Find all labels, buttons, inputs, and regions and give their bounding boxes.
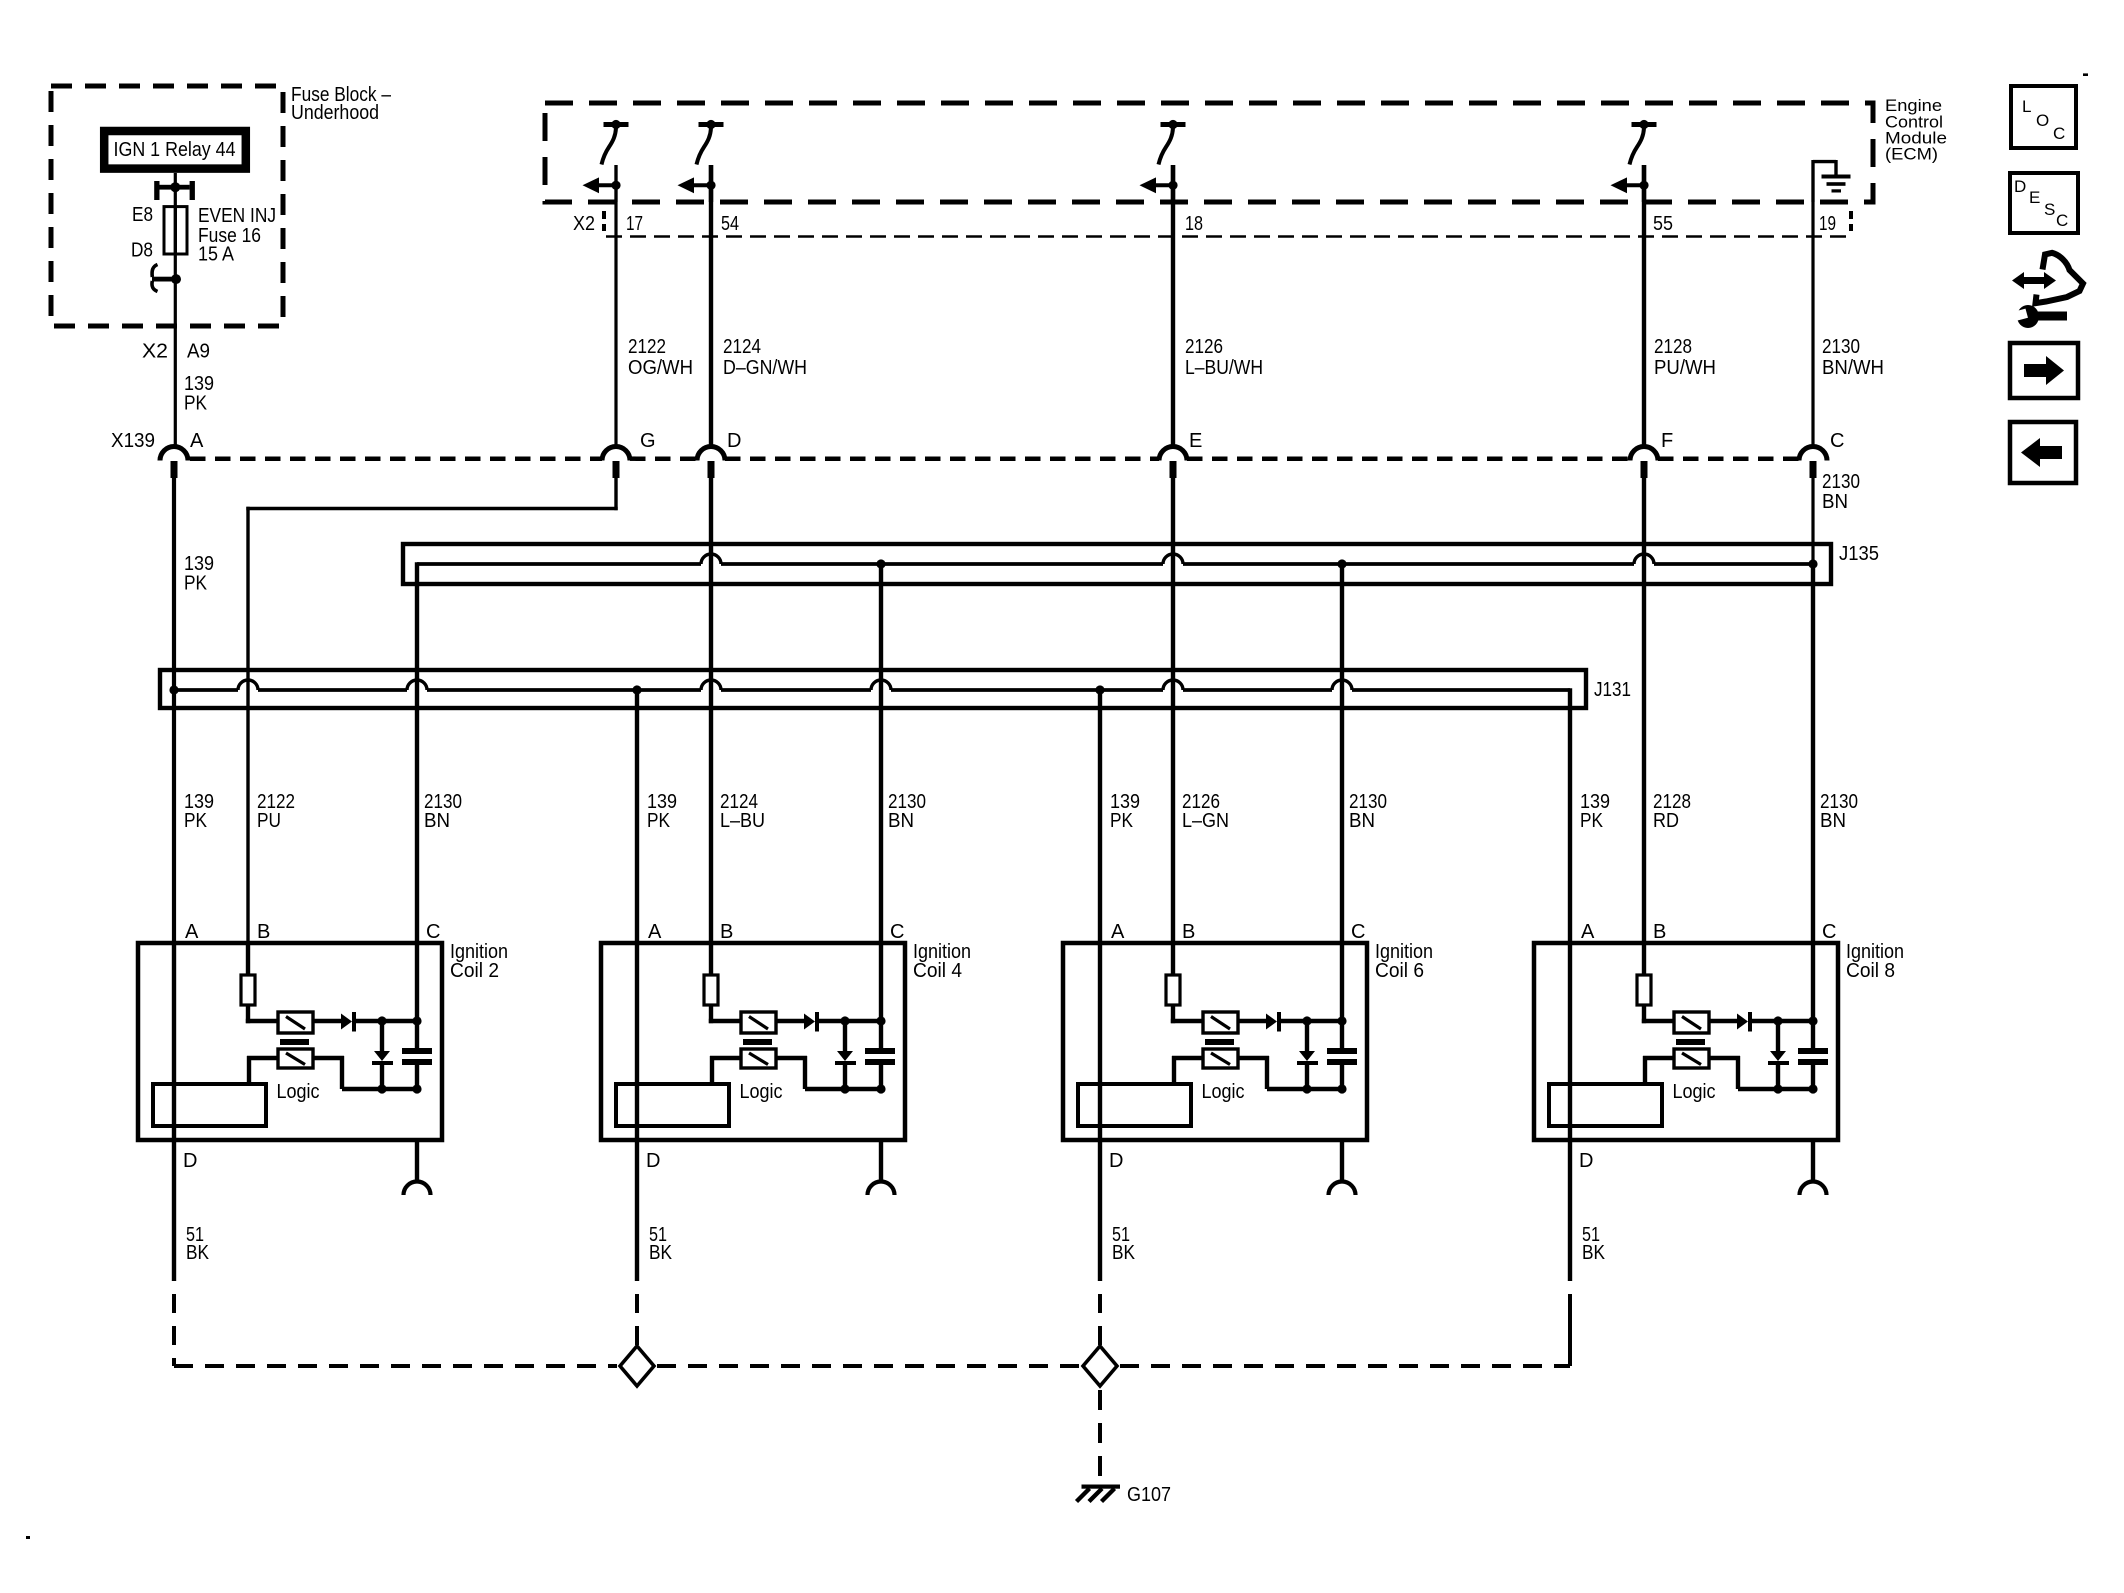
label wire 2122 OG/WH [628, 336, 693, 379]
ground bus dashed wire left segment [174, 1364, 617, 1368]
icon forward arrow box [2010, 343, 2078, 398]
connector X139 terminal A [160, 447, 188, 478]
coil 2 capacitor [402, 1048, 432, 1065]
svg-text:A: A [648, 921, 662, 943]
svg-text:A: A [190, 430, 204, 452]
pin label B coil 6 [1182, 921, 1195, 943]
fuse block - underhood dashed box [51, 86, 283, 326]
coil 2 primary winding [278, 1012, 313, 1033]
svg-text:X139: X139 [111, 430, 155, 452]
coil 4 diode [804, 1012, 819, 1032]
coil 6 wire to zener [1305, 1021, 1309, 1051]
svg-text:C: C [890, 921, 904, 943]
ignition coil 2 box [138, 943, 442, 1140]
icon LOC box [2011, 86, 2076, 148]
relay IGN 1 Relay 44 [104, 131, 246, 169]
coil 6 junction dot zener bottom [1302, 1084, 1311, 1093]
label Fuse Block - Underhood [291, 84, 392, 124]
pin label C coil 8 [1822, 921, 1836, 943]
fuse F16 EVEN INJ 15A [164, 207, 187, 254]
svg-text:B: B [257, 921, 270, 943]
svg-text:S: S [2044, 200, 2055, 219]
junction dot J135 at 2130 BN feed [1808, 559, 1817, 568]
svg-text:L–BU/WH: L–BU/WH [1185, 357, 1263, 379]
svg-text:2126: 2126 [1185, 336, 1223, 358]
svg-text:E: E [2029, 188, 2040, 207]
ground bus dashed wire right segment [1120, 1294, 1570, 1366]
wire 2130 BN J135 to coil6 C [1340, 564, 1344, 943]
label Ignition Coil 8 [1846, 941, 1904, 982]
label wire 51 BK coil 8 [1582, 1224, 1606, 1264]
ground bus dashed wire middle segment [657, 1364, 1079, 1368]
svg-text:E8: E8 [132, 204, 153, 226]
coil 8 junction dot C bottom [1808, 1084, 1817, 1093]
svg-text:PK: PK [1580, 810, 1604, 832]
coil 8 diode [1737, 1012, 1752, 1032]
coil 8 secondary left wire to logic block [1643, 1056, 1674, 1084]
wire 51 BK coil 8 dashed [1568, 1294, 1572, 1366]
coil 4 bottom tie wire [805, 1087, 881, 1091]
label Ignition Coil 4 [913, 941, 971, 982]
wire 51 BK coil 4 solid [635, 1140, 639, 1281]
coil 2 wire resistor to primary [246, 1005, 278, 1023]
terminal label D [727, 430, 741, 452]
svg-text:E: E [1189, 430, 1202, 452]
svg-text:D: D [727, 430, 741, 452]
svg-text:IGN 1 Relay 44: IGN 1 Relay 44 [114, 139, 236, 161]
svg-text:C: C [1351, 921, 1365, 943]
coil 2 wire to zener [380, 1021, 384, 1051]
label J131 [1594, 679, 1631, 701]
wire 2130 BN J135 to coil2 C [415, 562, 419, 943]
ground symbol G107 [1077, 1485, 1121, 1502]
pin label 18 [1185, 213, 1203, 235]
coil 4 junction dot at zener top [840, 1016, 849, 1025]
pin label B coil 2 [257, 921, 270, 943]
pin label C coil 4 [890, 921, 904, 943]
wire 2126 E to coil6 B [1171, 461, 1175, 943]
coil 2 wire primary to diode [313, 1019, 341, 1023]
pin label C coil 2 [426, 921, 440, 943]
connector X139 terminal G [602, 447, 630, 478]
coil 2 junction dot zener bottom [377, 1084, 386, 1093]
wire 2130 BN J135 to coil4 C [879, 564, 883, 943]
svg-text:Coil 2: Coil 2 [450, 960, 499, 982]
svg-text:Logic: Logic [1673, 1081, 1716, 1103]
svg-text:G107: G107 [1127, 1484, 1171, 1506]
svg-text:BN: BN [1822, 491, 1848, 513]
coil 6 wire A through logic block to D [1098, 943, 1102, 1140]
coil 6 junction dot at zener top [1302, 1016, 1311, 1025]
coil 8 logic block [1549, 1084, 1662, 1126]
svg-text:Logic: Logic [1202, 1081, 1245, 1103]
svg-text:BN: BN [424, 810, 450, 832]
coil 8 bottom tie wire [1738, 1087, 1813, 1091]
junction dot J131 coil6 tap [1095, 685, 1104, 694]
wire 2124 D to coil4 B [709, 461, 713, 943]
svg-text:D: D [1579, 1150, 1593, 1172]
wire 2122 jog from G down-left to coil2 B [246, 461, 617, 943]
splice J131 bus conductor [174, 680, 1570, 690]
coil 6 secondary left wire to logic block [1172, 1056, 1203, 1084]
svg-text:PU: PU [257, 810, 281, 832]
svg-text:L–BU: L–BU [720, 810, 765, 832]
wire 51 BK coil 4 dashed [635, 1294, 639, 1366]
wire 2126 L-BU/WH pin18 to X139-E [1171, 165, 1175, 447]
coil 8 wire C pin to capacitor [1811, 943, 1815, 1048]
ECM driver transistor for pin 55 [1611, 120, 1657, 202]
ignition coil 8 box [1534, 943, 1838, 1140]
svg-text:BK: BK [1582, 1242, 1606, 1264]
coil 6 wire zener to bottom [1305, 1065, 1309, 1089]
icon harness repair double arrow [2012, 272, 2056, 289]
ECM connector separator left [602, 211, 606, 231]
coil 2 junction dot C bottom [412, 1084, 421, 1093]
coil 4 wire diode to C [819, 1019, 881, 1023]
coil 4 secondary terminal arc [868, 1182, 895, 1196]
wire 2130 BN/WH pin19 to X139-C [1811, 160, 1814, 447]
icon harness outline squiggle [2036, 253, 2084, 303]
coil 6 wire C to terminal arc [1340, 1140, 1344, 1182]
svg-text:Underhood: Underhood [291, 102, 379, 124]
coil 4 wire zener to bottom [843, 1065, 847, 1089]
coil 4 resistor [704, 975, 718, 1005]
coil 2 secondary left wire to logic block [247, 1056, 278, 1084]
svg-text:BK: BK [186, 1242, 210, 1264]
coil 2 junction dot at C top [412, 1016, 421, 1025]
coil 8 resistor [1637, 975, 1651, 1005]
wire 51 BK coil 8 solid [1568, 1140, 1572, 1281]
coil 6 secondary right wire down [1238, 1056, 1269, 1089]
coil 4 wire A through logic block to D [635, 943, 639, 1140]
coil 8 secondary winding [1674, 1049, 1709, 1068]
coil 4 secondary right wire down [776, 1056, 807, 1089]
svg-text:2128: 2128 [1654, 336, 1692, 358]
wire 51 BK coil 6 dashed [1098, 1294, 1102, 1366]
coil 2 secondary terminal arc [404, 1182, 431, 1196]
label Ignition Coil 2 [450, 941, 508, 982]
coil 2 logic block [153, 1084, 266, 1126]
label J135 [1839, 543, 1879, 565]
pin label B coil 8 [1653, 921, 1666, 943]
coil 6 capacitor [1327, 1048, 1357, 1065]
wire splice to ground G107 dashed [1098, 1390, 1102, 1483]
coil 6 wire diode to C [1281, 1019, 1342, 1023]
label wire 139 PK coil 8 [1580, 791, 1610, 832]
coil 4 wire capacitor to bottom [879, 1065, 883, 1091]
coil 8 primary feed wire from B [1642, 943, 1646, 975]
svg-text:BN/WH: BN/WH [1822, 357, 1884, 379]
coil 6 logic block [1078, 1084, 1191, 1126]
ECM dashed box [545, 103, 1873, 202]
icon wrench [2007, 305, 2067, 328]
coil 2 wire C to terminal arc [415, 1140, 419, 1182]
label Logic coil 4 [740, 1081, 783, 1103]
coil 2 primary feed wire from B [246, 943, 250, 975]
ignition coil 4 box [601, 943, 905, 1140]
splice pack J135 box [403, 544, 1831, 584]
coil 8 secondary right wire down [1709, 1056, 1740, 1089]
svg-text:J131: J131 [1594, 679, 1631, 701]
coil 2 secondary right wire down [313, 1056, 344, 1089]
svg-text:X2: X2 [573, 213, 595, 235]
wire 51 BK coil 2 dashed [172, 1294, 176, 1366]
svg-text:RD: RD [1653, 810, 1679, 832]
coil 8 junction dot at zener top [1773, 1016, 1782, 1025]
svg-text:PU/WH: PU/WH [1654, 357, 1716, 379]
svg-text:Coil 6: Coil 6 [1375, 960, 1424, 982]
coil 6 secondary terminal arc [1329, 1182, 1356, 1196]
svg-text:EVEN INJ: EVEN INJ [198, 205, 276, 227]
label wire 2130 BN/WH [1822, 336, 1884, 379]
junction dot J135 coil4 tap [876, 559, 885, 568]
svg-text:BK: BK [649, 1242, 673, 1264]
coil 6 wire primary to diode [1238, 1019, 1266, 1023]
svg-text:BN: BN [1820, 810, 1846, 832]
terminal label G [640, 430, 656, 452]
label Engine Control Module (ECM) [1885, 96, 1947, 164]
label wire 139 PK middle [184, 553, 214, 595]
pin label A coil 4 [648, 921, 662, 943]
coil 8 junction dot at C top [1808, 1016, 1817, 1025]
coil 8 wire primary to diode [1709, 1019, 1737, 1023]
splice pack J131 box [160, 670, 1586, 708]
label wire 2128 RD coil 8 [1653, 791, 1691, 832]
svg-text:(ECM): (ECM) [1885, 145, 1938, 164]
icon back arrow box [2010, 422, 2076, 483]
coil 2 wire A through logic block to D [172, 943, 176, 1140]
label X2 at ECM connector [573, 213, 595, 235]
pin label D coil 4 [646, 1150, 660, 1172]
wire 139 PK X139-A to J131 to coil2 A [172, 461, 176, 943]
svg-text:L: L [2022, 97, 2031, 116]
label G107 [1127, 1484, 1171, 1506]
label wire 51 BK coil 6 [1112, 1224, 1136, 1264]
label wire 139 PK coil 2 [184, 791, 214, 832]
junction dot J131 at 139 PK feed [169, 685, 178, 694]
svg-text:A9: A9 [187, 341, 210, 363]
label wire 2128 PU/WH [1654, 336, 1716, 379]
coil 2 bottom tie wire [342, 1087, 417, 1091]
connector X139 dotted line [190, 456, 1799, 461]
junction dot J131 coil4 tap [632, 685, 641, 694]
svg-text:2130: 2130 [1822, 336, 1860, 358]
svg-text:A: A [1111, 921, 1125, 943]
stray mark top right [2083, 73, 2088, 76]
coil 4 junction dot C bottom [876, 1084, 885, 1093]
svg-text:C: C [1830, 430, 1844, 452]
svg-text:B: B [1653, 921, 1666, 943]
label connector X2 pin A9 [142, 341, 210, 363]
coil 6 junction dot at C top [1337, 1016, 1346, 1025]
coil 6 bottom tie wire [1267, 1087, 1342, 1091]
fuse holder top clip [154, 181, 195, 200]
label E8 [132, 204, 153, 226]
svg-text:Logic: Logic [277, 1081, 320, 1103]
coil 8 wire capacitor to bottom [1811, 1065, 1815, 1091]
coil 6 resistor [1166, 975, 1180, 1005]
coil 6 primary feed wire from B [1171, 943, 1175, 975]
coil 4 primary winding [741, 1012, 776, 1033]
label Logic coil 8 [1673, 1081, 1716, 1103]
icon DESC box [2010, 173, 2078, 233]
svg-text:L–GN: L–GN [1182, 810, 1229, 832]
coil 4 wire C pin to capacitor [879, 943, 883, 1048]
wire 2124 D-GN/WH pin54 to X139-D [709, 165, 713, 447]
coil 8 junction dot zener bottom [1773, 1084, 1782, 1093]
svg-text:A: A [185, 921, 199, 943]
svg-text:2122: 2122 [628, 336, 666, 358]
wire 139 PK J131 to coil6 A [1098, 690, 1102, 943]
pin label 55 [1653, 213, 1673, 235]
ECM connector separator right [1849, 211, 1853, 231]
label wire 2126 L–GN coil 6 [1182, 791, 1229, 832]
svg-text:15 A: 15 A [198, 244, 235, 266]
pin label D coil 2 [183, 1150, 197, 1172]
coil 4 zener diode [835, 1051, 856, 1065]
label Logic coil 6 [1202, 1081, 1245, 1103]
svg-text:18: 18 [1185, 213, 1203, 235]
svg-text:D: D [646, 1150, 660, 1172]
coil 4 capacitor [865, 1048, 895, 1065]
pin label A coil 8 [1581, 921, 1595, 943]
wire 2128 PU/WH pin55 to X139-F [1642, 165, 1646, 447]
coil 6 junction dot C bottom [1337, 1084, 1346, 1093]
connector X139 terminal F [1630, 447, 1658, 478]
svg-text:Coil 4: Coil 4 [913, 960, 962, 982]
coil 6 secondary winding [1203, 1049, 1238, 1068]
coil 2 wire diode to C [356, 1019, 417, 1023]
coil 4 wire C to terminal arc [879, 1140, 883, 1182]
svg-text:D–GN/WH: D–GN/WH [723, 357, 807, 379]
coil 6 diode [1266, 1012, 1281, 1032]
ECM driver transistor for pin 54 [678, 120, 724, 202]
coil 2 diode [341, 1012, 356, 1032]
coil 4 secondary left wire to logic block [710, 1056, 741, 1084]
svg-text:F: F [1661, 430, 1673, 452]
coil 2 zener diode [372, 1051, 393, 1065]
coil 8 primary winding [1674, 1012, 1709, 1033]
terminal label C [1830, 430, 1844, 452]
label wire 51 BK coil 2 [186, 1224, 210, 1264]
coil 6 wire C pin to capacitor [1340, 943, 1344, 1048]
label wire 139 PK upper [184, 373, 214, 415]
label EVEN INJ Fuse 16 15 A [198, 205, 276, 266]
label Logic coil 2 [277, 1081, 320, 1103]
svg-text:C: C [1822, 921, 1836, 943]
label wire 139 PK coil 6 [1110, 791, 1140, 832]
junction dot J135 coil6 tap [1337, 559, 1346, 568]
pin label D coil 8 [1579, 1150, 1593, 1172]
svg-text:G: G [640, 430, 656, 452]
wire 139 PK J131 to coil8 A [1568, 688, 1572, 943]
label wire 51 BK coil 4 [649, 1224, 673, 1264]
terminal label E [1189, 430, 1202, 452]
coil 2 wire zener to bottom [380, 1065, 384, 1089]
coil 8 wire diode to C [1752, 1019, 1813, 1023]
splice diamond coil4 ground [620, 1346, 654, 1386]
splice diamond coil6 ground [1083, 1346, 1117, 1386]
label wire 139 PK coil 4 [647, 791, 677, 832]
svg-text:C: C [426, 921, 440, 943]
svg-text:O: O [2036, 111, 2049, 130]
coil 6 zener diode [1297, 1051, 1318, 1065]
svg-text:2130: 2130 [1822, 471, 1860, 493]
wire 51 BK coil 2 solid [172, 1140, 176, 1281]
svg-text:19: 19 [1819, 213, 1836, 235]
wire clip to fuse E8 [174, 189, 177, 207]
connector X139 terminal E [1159, 447, 1187, 478]
svg-text:X2: X2 [142, 341, 168, 363]
coil 6 transformer core [1205, 1039, 1234, 1045]
fuse holder bottom clip [152, 265, 181, 292]
wire 139 PK fuse block to X139-A [174, 279, 177, 447]
coil 4 junction dot at C top [876, 1016, 885, 1025]
coil 4 wire to zener [843, 1021, 847, 1051]
wire 2130 BN J135 to coil8 C [1811, 564, 1815, 943]
svg-text:D: D [1109, 1150, 1123, 1172]
label wire 2130 BN coil 4 [888, 791, 926, 832]
ignition coil 6 box [1063, 943, 1367, 1140]
label wire 2126 L-BU/WH [1185, 336, 1263, 379]
pin label 19 [1819, 213, 1836, 235]
coil 2 wire capacitor to bottom [415, 1065, 419, 1091]
terminal label A [190, 430, 204, 452]
pin label C coil 6 [1351, 921, 1365, 943]
coil 6 primary winding [1203, 1012, 1238, 1033]
wire 2130 C to J135 [1811, 461, 1814, 564]
svg-text:B: B [720, 921, 733, 943]
pin label 17 [626, 213, 643, 235]
stray mark bottom left [26, 1536, 30, 1539]
label wire 2124 D-GN/WH [723, 336, 807, 379]
label wire 2122 PU coil 2 [257, 791, 295, 832]
label wire 2130 BN coil 8 [1820, 791, 1858, 832]
coil 8 wire zener to bottom [1776, 1065, 1780, 1089]
ECM internal ground pin 19 [1813, 160, 1851, 202]
coil 8 zener diode [1768, 1051, 1789, 1065]
label wire 2124 L–BU coil 4 [720, 791, 765, 832]
coil 8 wire A through logic block to D [1568, 943, 1572, 1140]
wire 51 BK coil 6 solid [1098, 1140, 1102, 1281]
svg-text:BN: BN [888, 810, 914, 832]
label wire 2130 BN upper [1822, 471, 1860, 513]
svg-text:Coil 8: Coil 8 [1846, 960, 1895, 982]
svg-text:D: D [183, 1150, 197, 1172]
coil 8 secondary terminal arc [1800, 1182, 1827, 1196]
svg-text:D: D [2014, 177, 2026, 196]
coil 4 primary feed wire from B [709, 943, 713, 975]
svg-text:D8: D8 [131, 240, 153, 262]
svg-text:17: 17 [626, 213, 643, 235]
svg-text:C: C [2053, 124, 2065, 143]
pin label 54 [721, 213, 739, 235]
terminal label F [1661, 430, 1673, 452]
coil 2 resistor [241, 975, 255, 1005]
ECM connector X2 dashed line [606, 235, 1853, 237]
coil 2 wire C pin to capacitor [415, 943, 419, 1048]
coil 8 wire to zener [1776, 1021, 1780, 1051]
svg-text:BN: BN [1349, 810, 1375, 832]
label wire 2130 BN coil 6 [1349, 791, 1387, 832]
pin label B coil 4 [720, 921, 733, 943]
label connector X139 [111, 430, 155, 452]
coil 6 wire resistor to primary [1171, 1005, 1203, 1023]
coil 4 junction dot zener bottom [840, 1084, 849, 1093]
svg-text:2124: 2124 [723, 336, 761, 358]
coil 4 logic block [616, 1084, 729, 1126]
svg-text:A: A [1581, 921, 1595, 943]
